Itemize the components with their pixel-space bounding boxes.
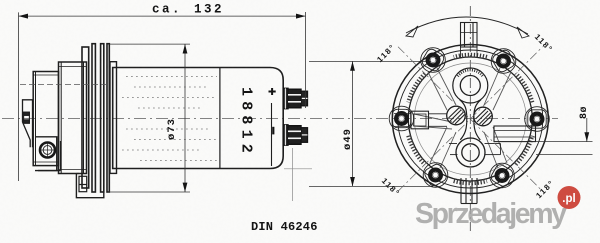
terminal studs <box>283 88 307 145</box>
main horizontal centerline (axis of both views) <box>2 118 558 120</box>
faint extension stubs right of cylinder <box>284 168 312 170</box>
cylinder left cap <box>110 62 117 174</box>
body circle <box>408 57 532 181</box>
vertical centerline <box>469 6 471 231</box>
coil hidden dotted rows <box>122 77 217 161</box>
flange plates <box>82 47 89 188</box>
118° labels <box>375 32 556 200</box>
section A (front housing) <box>33 72 58 166</box>
end cap line <box>271 103 273 166</box>
hatched circles <box>447 106 493 126</box>
dash line through sections A/B <box>20 83 109 85</box>
outer flange <box>392 45 548 194</box>
wedge inner vertical <box>32 100 34 148</box>
spoke ribs <box>414 68 511 168</box>
diagonal centerlines <box>398 47 543 192</box>
plunger wedge <box>23 100 33 148</box>
section B (bigger ring) <box>59 62 87 174</box>
mounting foot <box>76 174 103 198</box>
top tab <box>461 23 478 59</box>
hex bolt circle <box>40 143 55 158</box>
bolt housing (lower terminal) <box>35 137 57 171</box>
curved double arrow on top <box>406 17 528 34</box>
bolt bosses and holes <box>389 47 549 188</box>
main cylinder body <box>113 68 284 169</box>
bottom tab <box>461 178 477 204</box>
bottom stud <box>283 125 307 145</box>
minus sign (rotated => vertical bar) <box>272 127 274 135</box>
wedge notch (clevis slot) <box>24 112 30 123</box>
hatched rim arcs between bolts <box>409 55 533 183</box>
left tab <box>394 111 447 129</box>
central dog-bone <box>453 68 488 167</box>
plus sign <box>269 88 276 95</box>
label divider <box>219 68 221 169</box>
paper noise <box>0 0 1 1</box>
right tab <box>449 126 536 155</box>
top stud <box>283 88 307 108</box>
